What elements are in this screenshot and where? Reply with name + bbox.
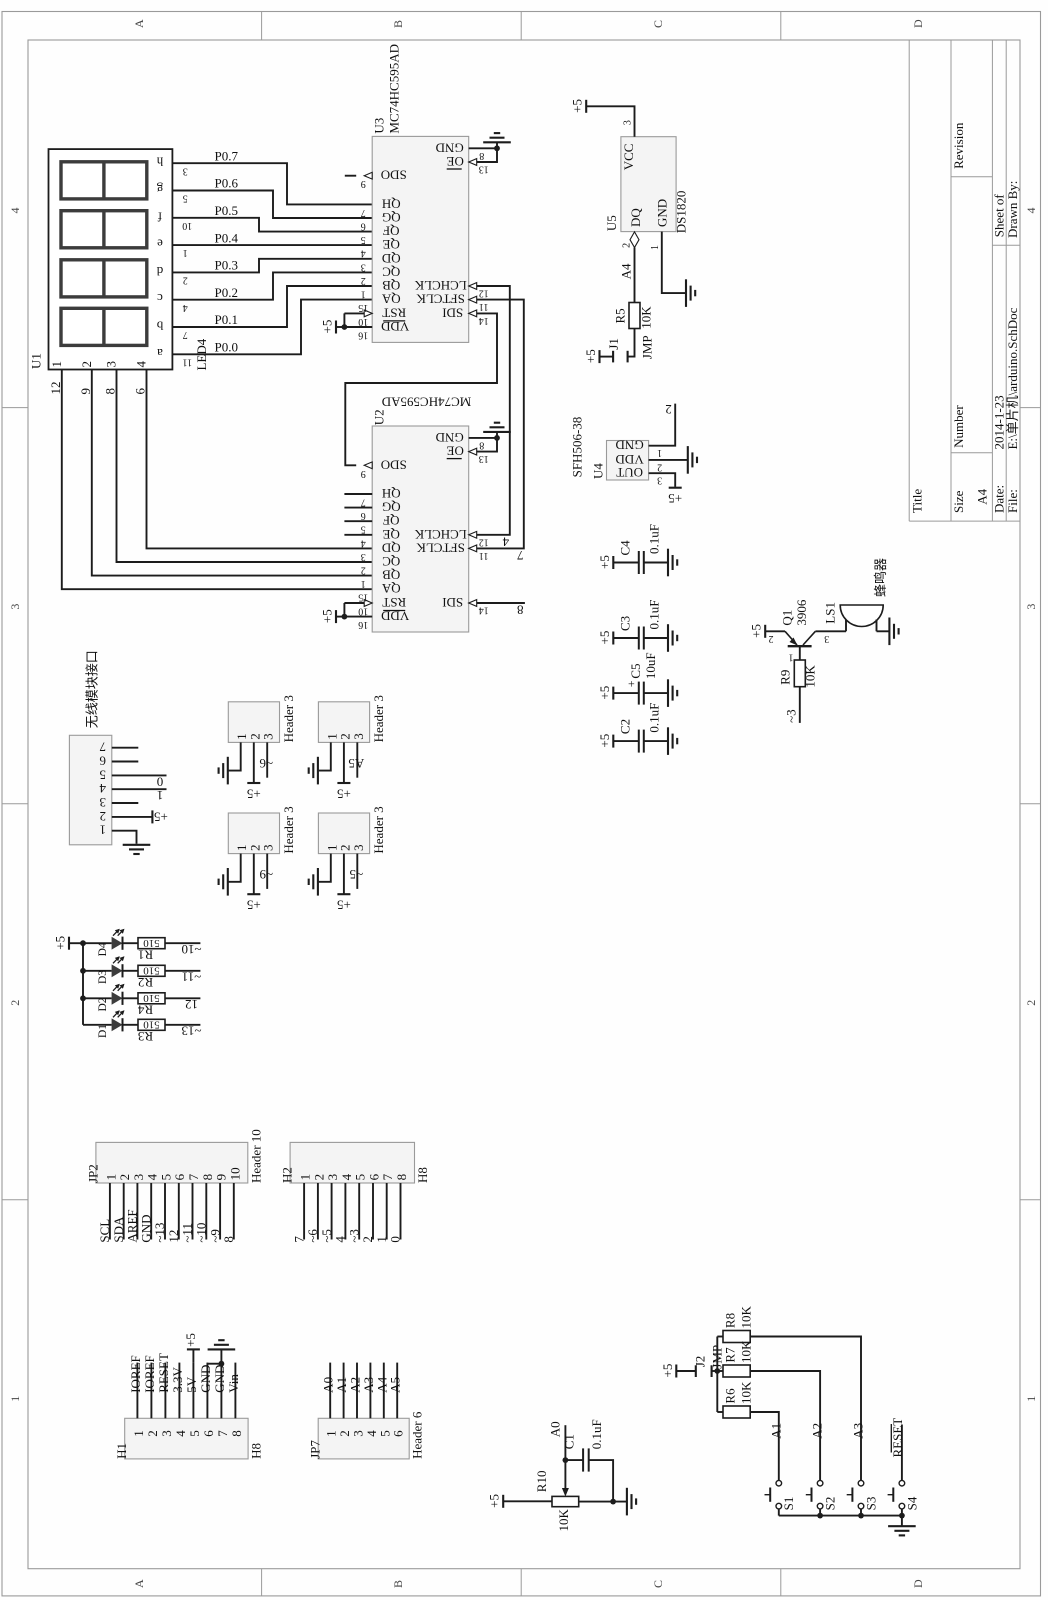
svg-text:D: D [911,1579,925,1588]
wire C1 to R10 right [589,1460,613,1502]
wire Header3 pin1 to ground [229,854,241,882]
wire R2 to net ~11 [165,970,200,972]
svg-text:2: 2 [665,402,672,417]
svg-text:SDO: SDO [381,457,407,472]
svg-text:c: c [157,291,163,306]
svg-text:15: 15 [358,302,368,313]
svg-text:3: 3 [100,795,107,810]
svg-text:510: 510 [143,937,160,949]
svg-text:U5: U5 [604,215,619,231]
svg-text:6: 6 [361,221,366,232]
svg-text:12: 12 [166,1230,181,1243]
svg-text:7: 7 [361,207,366,218]
svg-text:1: 1 [157,788,164,803]
svg-text:2: 2 [100,809,107,824]
svg-text:10: 10 [182,220,192,231]
power +5 LED bus [68,937,70,950]
resistor R9 [794,660,805,687]
svg-text:P0.3: P0.3 [215,258,238,273]
svg-text:A: A [132,19,146,28]
resistor R8 [723,1331,750,1343]
svg-text:Q1: Q1 [780,610,795,626]
svg-text:1: 1 [8,1396,22,1402]
ground symbol U3 [483,141,511,143]
wire U3 RST [344,312,364,314]
svg-text:4: 4 [361,248,366,259]
wire LCHCLK bus [477,286,510,535]
ground symbol Header3 [227,868,229,896]
svg-text:b: b [157,319,164,334]
Header 3 box at 228,702 [228,702,279,743]
svg-text:8: 8 [103,388,118,395]
svg-text:1: 1 [1024,1396,1038,1402]
svg-text:7: 7 [215,1430,230,1437]
resistor R5 [629,303,640,329]
svg-text:File:: File: [1005,489,1020,513]
wire H2 pin 7 [386,1183,388,1240]
svg-text:~11: ~11 [182,970,202,985]
wire U5 DQ to R5 [634,248,636,303]
junction S4 [899,1513,905,1519]
svg-text:4: 4 [8,208,22,214]
wire R3 to net ~13 [165,1024,200,1026]
svg-text:~3: ~3 [783,709,798,723]
wire Header3 pin3 [356,742,358,777]
svg-text:SDO: SDO [381,168,407,183]
svg-text:6: 6 [133,388,148,395]
svg-text:P0.2: P0.2 [215,285,238,300]
U3 SFTCLK arrow [469,296,477,303]
svg-text:0: 0 [157,774,164,789]
svg-text:R8: R8 [723,1313,738,1328]
svg-text:3: 3 [261,733,276,740]
svg-text:D: D [911,19,925,28]
ground symbol wireless [123,844,151,846]
wire R4 to net 12 [165,997,200,999]
svg-text:+5: +5 [320,609,335,623]
svg-text:E:\单片机\arduino.SchDoc: E:\单片机\arduino.SchDoc [1005,307,1020,449]
svg-text:R1: R1 [138,947,153,962]
svg-text:B: B [391,1580,405,1588]
svg-text:1: 1 [100,823,107,838]
svg-text:~10: ~10 [181,942,201,957]
svg-text:RST: RST [382,305,406,320]
ground symbol U5 [685,279,687,307]
svg-text:P0.1: P0.1 [215,312,238,327]
svg-text:1: 1 [131,1430,146,1437]
wire wireless pin2 to +5 [112,816,153,818]
wire R9 to net ~3 [799,687,801,723]
svg-text:J2: J2 [693,1356,708,1368]
svg-text:H2: H2 [280,1167,295,1183]
svg-text:510: 510 [143,1019,160,1031]
svg-text:10K: 10K [738,1306,753,1329]
svg-text:8: 8 [394,1174,409,1181]
wire U4 OUT to +5 [649,473,676,487]
svg-text:+: + [628,677,635,691]
header JP2 box [96,1142,248,1183]
wire H2 pin 5 [358,1183,360,1240]
LED D3 [112,964,123,977]
wire H1 pin 8 [234,1363,236,1419]
header H2 box [290,1142,414,1183]
svg-text:7: 7 [380,1173,395,1180]
svg-text:9: 9 [361,178,366,189]
svg-text:5: 5 [100,767,107,782]
svg-text:A1: A1 [768,1423,783,1439]
svg-text:+5: +5 [583,349,598,363]
svg-text:+5: +5 [247,787,261,802]
junction R10 wiper / C1 [563,1457,569,1463]
svg-text:6: 6 [172,1173,187,1180]
junction C1 / R10 [610,1499,616,1505]
svg-text:A5: A5 [348,756,364,771]
power +5 H1 pin5 [192,1349,194,1362]
wire H1 pin 3 [164,1363,166,1419]
svg-text:3: 3 [159,1430,174,1437]
svg-text:QC: QC [382,554,400,569]
wire JP2 pin 7 [192,1183,194,1240]
svg-text:QF: QF [383,513,400,528]
wire U2 QH stub [344,493,372,495]
svg-text:0.1uF: 0.1uF [646,703,661,733]
junction LED bus D3 [80,968,86,974]
svg-text:A5: A5 [388,1377,403,1393]
svg-text:12: 12 [185,997,198,1012]
svg-text:4: 4 [134,361,149,368]
wire JP2 pin 9 [219,1183,221,1240]
svg-text:2: 2 [769,633,774,644]
junction J2 bus [714,1368,720,1374]
wire H2 pin 8 [400,1183,402,1240]
svg-text:GND: GND [654,199,669,227]
svg-text:16: 16 [358,330,368,341]
svg-text:2: 2 [622,243,633,248]
svg-text:Header 10: Header 10 [248,1129,263,1183]
svg-text:SFH506-38: SFH506-38 [570,417,585,478]
junction LED bus D2 [80,995,86,1001]
wire U2 SDO to U3 SDI [345,313,497,465]
svg-text:4: 4 [173,1430,188,1437]
svg-text:RESET: RESET [890,1418,905,1458]
svg-text:12: 12 [479,536,489,547]
svg-text:U4: U4 [591,463,606,479]
capacitor C1 [565,1459,583,1461]
svg-text:3: 3 [261,845,276,852]
svg-text:16: 16 [358,619,368,630]
wire U1 pin 1 to U2 [62,369,373,589]
ground symbol LS1 [888,618,890,646]
wire H1 pin 4 [178,1363,180,1419]
svg-text:QH: QH [382,196,401,211]
U3 OE arrow [469,159,477,166]
U2 SFTCLK arrow [469,545,477,552]
capacitor C2 [612,735,614,748]
buzzer LS1 [840,605,883,627]
wire U3 GND/OE [469,148,497,162]
power +5 Header3 [337,782,350,784]
svg-text:AREF: AREF [125,1209,140,1242]
wire switch common [779,1515,902,1517]
svg-text:3: 3 [8,604,22,610]
wire U1 pin 2 to U2 [92,369,373,575]
svg-text:12: 12 [479,288,489,299]
wire U1 pin 3 to U2 [117,369,373,562]
title block [908,40,910,521]
svg-text:GND: GND [436,430,464,445]
svg-text:12: 12 [48,382,63,395]
wire common to ground [901,1516,903,1527]
svg-text:1: 1 [183,247,188,258]
svg-text:2: 2 [1024,1000,1038,1006]
svg-text:A4: A4 [619,263,634,279]
power +5 J2 [675,1365,677,1378]
svg-text:~5: ~5 [350,867,364,882]
svg-text:C4: C4 [618,540,633,556]
svg-text:A: A [132,1579,146,1588]
wire P0.1 to U3 [172,286,372,327]
svg-text:1: 1 [657,447,662,458]
IC U4 SFH506-38 [607,441,649,481]
wire P0.7 to U3 [172,163,372,204]
LED D4 [112,937,123,950]
jumper J2 [695,1365,697,1377]
wire U4 GND to net 2 [649,404,676,446]
wire U5 GND to ground [662,232,686,294]
svg-text:D4: D4 [97,942,109,956]
wire R6 to switch [750,1412,779,1480]
svg-text:2: 2 [79,361,94,368]
svg-text:RESET: RESET [156,1353,171,1393]
svg-text:+5: +5 [154,809,168,824]
wire SFTCLK bus [477,300,524,549]
Header 3 box at 318,813 [318,813,369,854]
U1 digit glyphs [61,162,147,199]
wire Header3 pin3 [356,854,358,889]
svg-text:U3: U3 [372,118,387,134]
svg-text:~10: ~10 [194,1223,209,1243]
ground symbol H1 [208,1348,236,1350]
wire U2 VDD to +5 [336,616,344,618]
U2 SDI arrow [469,600,477,607]
svg-text:QB: QB [382,568,400,583]
svg-text:S3: S3 [863,1497,878,1511]
svg-text:Title: Title [910,489,925,513]
wire S3 to common [860,1509,862,1516]
svg-text:4: 4 [333,1236,348,1243]
ground symbol U4 [687,446,689,474]
svg-text:R10: R10 [534,1471,549,1493]
svg-text:0.1uF: 0.1uF [589,1419,604,1449]
wire D2 to R4 [123,997,138,999]
svg-text:+5: +5 [660,1364,675,1378]
svg-text:13: 13 [479,164,489,175]
svg-text:4: 4 [1024,208,1038,214]
svg-text:10K: 10K [639,306,654,329]
power +5 wireless [151,810,153,823]
svg-text:P0.4: P0.4 [215,230,239,245]
wire P0.2 to U3 [172,272,372,299]
svg-text:R7: R7 [723,1347,738,1363]
svg-text:A4: A4 [975,488,990,504]
svg-text:Size: Size [951,490,966,513]
wire wireless pin4 net 1 [112,788,167,790]
svg-text:DS1820: DS1820 [673,191,688,234]
svg-text:13: 13 [479,453,489,464]
IC U3 body [372,136,469,342]
svg-text:Header 6: Header 6 [410,1411,425,1459]
svg-text:VDD: VDD [381,609,409,624]
svg-text:MC74HC595AD: MC74HC595AD [387,44,402,134]
resistor R4 [138,993,165,1004]
svg-text:DQ: DQ [628,208,643,227]
svg-text:QF: QF [383,224,400,239]
svg-text:7: 7 [361,497,366,508]
svg-text:3: 3 [104,361,119,368]
wire JP2 pin 6 [178,1183,180,1240]
power +5 U5 [585,100,587,113]
header H1 box [125,1418,248,1459]
header JP7 box [318,1418,409,1459]
svg-text:2: 2 [183,275,188,286]
wire R5 to J1 [628,329,635,357]
svg-text:JP7: JP7 [308,1440,323,1459]
wire S1 to common [778,1509,780,1516]
Header 3 box at 318,702 [318,702,369,743]
svg-text:7: 7 [183,329,188,340]
svg-text:3: 3 [361,551,366,562]
svg-text:+5: +5 [183,1333,198,1347]
svg-text:蜂鸣器: 蜂鸣器 [873,558,888,597]
junction U3 GND [494,145,500,151]
U3 SDI arrow [469,310,477,317]
wire Header3 pin1 to ground [319,854,331,882]
svg-text:2: 2 [361,565,366,576]
svg-text:H1: H1 [114,1443,129,1459]
svg-text:P0.7: P0.7 [215,148,239,163]
svg-text:SFTCLK: SFTCLK [416,540,465,555]
power +5 Header3 [337,893,350,895]
LED D2 [112,992,123,1005]
svg-text:8: 8 [517,603,524,618]
svg-text:d: d [156,264,163,279]
U5 DQ pin arrow [630,232,639,248]
svg-text:SDI: SDI [442,305,463,320]
wire JP2 pin 10 [233,1183,235,1240]
wire U2 GND/OE [469,438,497,452]
svg-text:8: 8 [200,1174,215,1181]
wire S4 to common [901,1509,903,1516]
wire D4 to R1 [123,942,138,944]
zone tick marks [261,12,263,41]
wire LS1 to ground [877,630,889,632]
svg-text:0: 0 [388,1236,403,1243]
svg-text:10: 10 [358,606,368,617]
junction LED bus D4 [80,940,86,946]
svg-text:6: 6 [361,510,366,521]
svg-text:IOREF: IOREF [128,1355,143,1393]
svg-text:14: 14 [479,315,489,326]
wire JP7 pin 2 [343,1363,345,1419]
svg-text:OE: OE [446,154,463,169]
svg-text:无线模块接口: 无线模块接口 [85,650,100,728]
svg-text:QA: QA [381,292,400,307]
svg-text:SCL: SCL [97,1219,112,1243]
wire JP7 pin 4 [369,1363,371,1419]
wire U2 QE stub [344,534,372,536]
svg-text:Vin: Vin [226,1374,241,1393]
svg-text:~9: ~9 [259,867,273,882]
power +5 Header3 [247,782,260,784]
svg-text:QB: QB [382,278,400,293]
junction U2 VDD [342,614,348,620]
svg-text:QG: QG [382,500,401,515]
svg-text:LS1: LS1 [823,602,838,624]
wire JP2 pin 1 [109,1183,111,1240]
svg-text:4: 4 [502,534,509,549]
svg-text:+5: +5 [570,99,585,113]
svg-text:Header 3: Header 3 [371,806,386,853]
svg-text:~11: ~11 [180,1223,195,1243]
svg-text:P0.5: P0.5 [215,203,238,218]
svg-text:H8: H8 [249,1443,264,1459]
svg-text:+5: +5 [337,787,351,802]
wire Header3 pin2 to +5 [253,854,255,895]
wireless module header box [69,735,111,845]
svg-text:10K: 10K [803,665,818,688]
wire Q1 collector to LS1 [815,630,846,632]
svg-text:SDI: SDI [442,595,463,610]
wire Q1 base to R9 [799,646,801,660]
svg-text:Header 3: Header 3 [371,695,386,742]
wire H2 pin 1 [303,1183,305,1240]
wire S2 to common [819,1509,821,1516]
svg-text:GND: GND [616,438,644,453]
svg-text:VDD: VDD [616,452,644,467]
transistor Q1 3906 [788,645,812,647]
ground symbol switches [888,1525,916,1527]
power +5 U3 [335,321,337,334]
svg-text:+5: +5 [597,686,612,700]
svg-text:f: f [157,209,162,224]
svg-text:10uF: 10uF [643,652,658,679]
power +5 Header3 [247,893,260,895]
switch S1 [776,1480,782,1486]
wire wireless pin3 stub [112,802,139,804]
svg-text:C1: C1 [561,1434,576,1449]
svg-text:MC74HC595AD: MC74HC595AD [382,395,472,410]
svg-text:+5: +5 [597,631,612,645]
svg-text:4: 4 [99,781,106,796]
svg-text:3: 3 [1024,604,1038,610]
wire U3 VDD to +5 [336,326,344,328]
U2 RST arrow [364,600,372,607]
svg-text:8: 8 [221,1236,236,1243]
svg-text:R4: R4 [137,1002,153,1017]
ground H1 pins 6,7 [207,1363,221,1365]
wire wireless pin7 stub [112,747,139,749]
svg-text:RST: RST [382,595,406,610]
svg-text:h: h [156,155,163,170]
svg-text:1: 1 [49,361,64,368]
wire R8 to switch [750,1337,861,1481]
resistor R7 [723,1365,750,1377]
svg-text:QG: QG [382,210,401,225]
svg-text:5: 5 [353,1174,368,1181]
svg-text:Revision: Revision [951,122,966,169]
wire H1 pin 6 [206,1363,208,1419]
svg-text:P0.0: P0.0 [215,340,238,355]
